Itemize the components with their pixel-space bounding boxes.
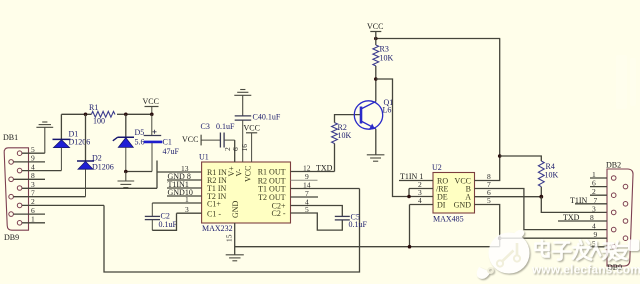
capacitor C1 47uF electrolytic	[144, 114, 163, 171]
wire pin12 R1OUT to R2	[291, 171, 335, 173]
capacitor C2 0.1uF	[145, 203, 160, 230]
wire pin3 C1- left	[177, 212, 202, 214]
wire R3 bottom to collector node	[375, 66, 377, 79]
svg-text:VCC: VCC	[367, 22, 383, 31]
watermark chinese text fa	[573, 241, 591, 260]
svg-text:D2: D2	[92, 154, 102, 163]
svg-text:www.elecfans.com: www.elecfans.com	[531, 263, 640, 277]
wire DB2 pin5 stub	[590, 246, 607, 248]
DB2 pin hole pin6	[623, 184, 628, 189]
junction dot collector node	[374, 77, 378, 81]
svg-text:6: 6	[231, 147, 240, 151]
wire pin5 C2- to C5 bottom	[291, 213, 343, 230]
DB1 pin hole pin4	[17, 168, 22, 173]
transistor Q1	[354, 101, 382, 130]
VCC symbol left of C3	[182, 135, 220, 146]
DB1 pin hole pin7	[9, 194, 14, 199]
wire pin4 C2+ to C5	[291, 206, 343, 217]
wire rail D5 node to VCC corner	[126, 113, 152, 115]
svg-text:0.1uF: 0.1uF	[159, 220, 178, 229]
svg-text:MAX232: MAX232	[202, 224, 233, 233]
wire ground rail to MAX485 side	[235, 246, 500, 248]
svg-text:0.1uF: 0.1uF	[349, 220, 368, 229]
svg-text:DB9: DB9	[4, 233, 19, 242]
svg-text:100: 100	[93, 117, 105, 126]
wire DB2 pin1 stub	[590, 177, 607, 179]
svg-text:10K: 10K	[380, 54, 394, 63]
wire D2 column upper	[85, 114, 87, 161]
DB2 pin hole pin5	[611, 245, 616, 250]
wire node to MAX232 pin13 (R1 IN) riser	[156, 161, 158, 189]
svg-text:C1+: C1+	[207, 199, 221, 208]
net label T1IN pin 11 wire	[167, 187, 202, 189]
DB2 pin hole pin2	[611, 193, 616, 198]
wire D1 column	[60, 114, 62, 139]
wire rail R1 to D5 node	[117, 113, 126, 115]
svg-text:47uF: 47uF	[163, 147, 180, 156]
wire DB1 pin7 to D2	[14, 196, 86, 198]
svg-text:U1: U1	[199, 153, 209, 162]
svg-text:U2: U2	[432, 163, 442, 172]
wire DB1 pin8 stub	[14, 178, 46, 180]
wire Q1 collector up to R3 node	[375, 79, 377, 102]
VCC symbol above C1	[143, 97, 159, 114]
svg-text:10K: 10K	[545, 171, 559, 180]
DB2 pin hole pin7	[623, 202, 628, 207]
wire DB1 pin5 to ground stem	[22, 152, 45, 154]
wire R4 node down to DB2 pin3	[541, 197, 607, 213]
wire DB2 pin7 T1IN	[575, 203, 607, 205]
DB1 pin hole pin9	[9, 160, 14, 165]
svg-text:C1 -: C1 -	[207, 209, 221, 218]
resistor R2 (10K) zigzag	[332, 123, 338, 144]
wire D5/C1 node horizontal	[126, 171, 152, 173]
resistor R1 (100) zigzag	[91, 111, 115, 117]
wire Q1 emitter down to ground	[375, 129, 377, 155]
wire DI pin4	[410, 204, 434, 206]
DB1 pin hole pin8	[9, 177, 14, 182]
wire pin1 C1+ left	[152, 202, 201, 204]
svg-text:C40.1uF: C40.1uF	[253, 113, 281, 122]
junction dot A/R4	[539, 195, 543, 199]
wire C2 bottom return to pin3	[152, 213, 176, 230]
wire DB2 pin9 to ground vertical	[500, 237, 607, 239]
wire pin7 T2OUT stub	[291, 196, 319, 198]
svg-text:D1206: D1206	[92, 163, 114, 172]
watermark registered badge	[628, 240, 640, 252]
wire VCC stem to R3	[375, 32, 377, 46]
resistor R4 (10K) zigzag	[538, 161, 544, 187]
DB1 pin hole pin1	[17, 221, 22, 226]
wire pin9 stub (gray)	[291, 179, 318, 181]
svg-text:D1206: D1206	[69, 138, 91, 147]
svg-text:GND10: GND10	[168, 188, 193, 197]
svg-text:L6: L6	[383, 106, 392, 115]
svg-text:16: 16	[240, 144, 249, 152]
svg-text:R1 OUT: R1 OUT	[258, 168, 286, 177]
op-amp U1 MAX232 body	[202, 162, 291, 223]
wire D5 column upper	[125, 114, 127, 137]
wire RO pin1 stub	[399, 180, 433, 182]
DB2 pin hole pin1	[611, 176, 616, 181]
wire pin15 GND down	[234, 223, 236, 255]
wire DB1 pin2 down and along bottom to T1OUT	[104, 189, 360, 273]
DB2 pin hole pin4	[611, 227, 616, 232]
capacitor C3 0.1uF	[220, 133, 234, 148]
connector DB2 body	[607, 169, 633, 266]
watermark chinese text you	[609, 242, 627, 260]
diode D1 (D1206)	[53, 139, 71, 170]
ground (below Q1 emitter)	[367, 155, 385, 161]
junction dot DB2 pin9 to GND	[498, 236, 502, 240]
connector J DB1 body	[4, 148, 28, 230]
zener diode D5 (5.6V)	[113, 137, 134, 171]
ground (below MAX232 pin15)	[226, 255, 244, 261]
svg-text:C2 -: C2 -	[272, 209, 286, 218]
wire DB1 pin9 stub	[14, 161, 46, 163]
svg-text:5: 5	[487, 196, 491, 205]
DB2 pin hole pin3	[611, 210, 616, 215]
logo circle	[489, 233, 530, 274]
wire V+ pin2	[234, 140, 236, 162]
svg-text:VCC: VCC	[182, 135, 198, 144]
wire R2 top to Q1 base	[335, 115, 361, 123]
DB1 pin hole pin5	[17, 151, 22, 156]
wire collector node to RE/DE feed	[376, 79, 409, 197]
wire rail left segment (D1 top to R1)	[61, 113, 91, 115]
svg-text:GND: GND	[231, 200, 240, 218]
svg-text:C1: C1	[163, 138, 172, 147]
diode D2 (D1206)	[77, 161, 94, 197]
svg-text:R1: R1	[89, 103, 98, 112]
DB1 pin hole pin3	[17, 186, 22, 191]
wire DB1 pin3 to R1IN node	[22, 187, 157, 189]
wire B pin7 to DB2 pin4	[475, 189, 608, 230]
wire DB2 pin6 stub	[590, 186, 607, 188]
net label GND pin 8 wire	[167, 179, 202, 181]
junction dot DI-ground rail	[408, 245, 412, 249]
resistor R3 (10K) zigzag	[373, 45, 379, 66]
wire R4 bottom to A node	[540, 187, 542, 197]
junction dot at D2 branch	[84, 113, 88, 117]
junction dot RE/DE	[407, 195, 411, 199]
svg-text:DB2: DB2	[606, 161, 621, 170]
svg-text:4: 4	[418, 196, 422, 205]
wire DB1 pin2 right	[22, 204, 104, 206]
svg-text:15: 15	[225, 234, 234, 242]
junction dot VCC/R4 branch	[498, 154, 502, 158]
ground (top-left, inverted, on DB1 pin5)	[36, 122, 53, 153]
VCC symbol above pin16	[244, 124, 260, 163]
wire branch to R4	[500, 156, 542, 161]
wire pin14 T1OUT right	[291, 188, 360, 190]
svg-text:5.6: 5.6	[135, 138, 145, 147]
svg-text:DI: DI	[437, 200, 446, 209]
watermark chinese text dian	[536, 241, 549, 257]
chip U2 MAX485 body	[433, 173, 475, 214]
DB2 pin hole pin9	[623, 236, 628, 241]
wire DB1 pin4 to D1	[22, 170, 61, 172]
junction dot at C1/VCC on rail	[150, 113, 154, 117]
svg-text:10K: 10K	[338, 131, 352, 140]
watermark chinese text shao	[592, 242, 616, 259]
junction dot at D5 branch	[124, 113, 128, 117]
wire MAX232 pin13 R1 IN	[157, 171, 202, 173]
wire VCC pin8 to vertical	[475, 39, 500, 181]
svg-text:VCC: VCC	[244, 124, 260, 133]
junction dot D5 ground node	[124, 170, 128, 174]
svg-text:GND: GND	[454, 200, 472, 209]
svg-text:DB1: DB1	[3, 133, 18, 142]
wire R2 bottom to TXD wire	[334, 144, 336, 172]
svg-text:VCC: VCC	[244, 166, 253, 182]
DB2 pin hole pin8	[623, 219, 628, 224]
wire VCC top rail	[376, 38, 500, 40]
DB1 pin hole pin6	[9, 212, 14, 217]
VCC symbol top	[367, 22, 383, 32]
ground (inverted, above C4)	[234, 90, 251, 116]
faint right-edge watermark	[616, 55, 636, 109]
svg-text:3: 3	[31, 180, 35, 189]
watermark chinese text zi	[553, 243, 571, 260]
svg-text:VCC: VCC	[143, 97, 159, 106]
wire RE to DE join	[408, 189, 410, 197]
junction dot VCC rail	[374, 37, 378, 41]
net label GND pin 10 wire	[167, 195, 202, 197]
wire A pin6 to R4 node	[475, 196, 542, 198]
svg-text:R3: R3	[380, 45, 389, 54]
ground (below D5/C1 node)	[118, 172, 135, 188]
wire GND pin5 down	[475, 205, 500, 247]
svg-text:D5: D5	[135, 128, 145, 137]
capacitor C5 0.1uF	[335, 216, 350, 220]
capacitor C4 0.1uF	[235, 116, 252, 162]
svg-text:0.1uF: 0.1uF	[216, 122, 235, 131]
wire DB2 pin2 stub	[590, 194, 607, 196]
svg-text:MAX485: MAX485	[433, 215, 464, 224]
svg-text:V-: V-	[235, 168, 244, 176]
wire DB1 pin1 stub	[22, 222, 45, 224]
wire RE pin2	[409, 188, 433, 190]
wire DI down to ground rail	[409, 205, 411, 247]
wire DB2 pin8 TXD	[558, 220, 607, 222]
svg-text:C3: C3	[201, 122, 210, 131]
wire DB1 pin6 stub	[14, 213, 46, 215]
DB1 pin hole pin2	[17, 203, 22, 208]
wire DE pin3	[409, 196, 433, 198]
